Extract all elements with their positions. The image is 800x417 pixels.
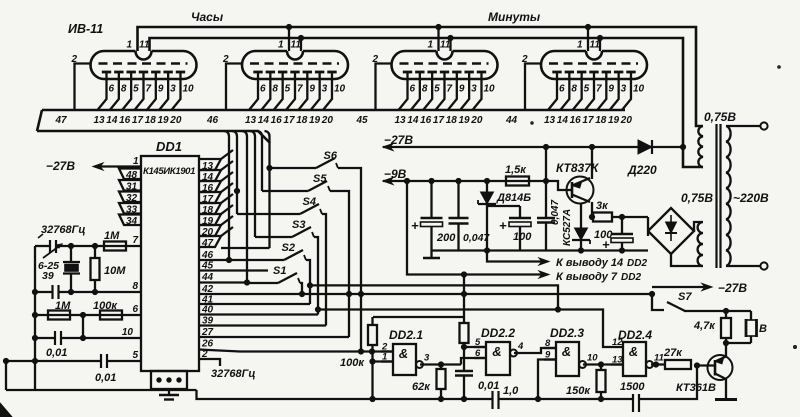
tube2 grid (dashed) — [250, 62, 339, 65]
svg-text:&: & — [562, 344, 571, 359]
DD1 pin 47 stub — [199, 236, 221, 249]
wire tube4 pin1 riser — [587, 27, 589, 51]
svg-text:45: 45 — [356, 115, 369, 126]
svg-text:10: 10 — [587, 353, 598, 364]
DD1 pin 34 stub — [119, 215, 141, 228]
wire feed to S2 — [229, 259, 284, 261]
svg-text:13: 13 — [395, 115, 407, 126]
svg-text:Минуты: Минуты — [488, 10, 541, 24]
wire rail 317 — [373, 316, 464, 318]
ground at DD1 — [168, 389, 170, 395]
svg-text:44: 44 — [505, 115, 518, 126]
svg-text:10: 10 — [182, 84, 194, 95]
capacitor 100 electrolytic (output) — [602, 217, 633, 252]
tube1 anode segments and leads — [98, 72, 186, 110]
tube4 anode segments and leads — [548, 72, 636, 110]
wire К выводу 14 — [487, 251, 544, 262]
wire osc pin5 row — [6, 360, 100, 362]
wire К выводу 7 — [407, 181, 544, 275]
svg-text:13: 13 — [94, 115, 106, 126]
svg-text:1: 1 — [577, 40, 583, 51]
svg-text:3: 3 — [322, 84, 328, 95]
wire 3к to bridge — [647, 217, 649, 236]
svg-text:DD2.4: DD2.4 — [618, 328, 652, 342]
wire DD2.2 pin5 feed — [464, 346, 486, 348]
svg-text:11: 11 — [291, 40, 302, 51]
svg-text:2: 2 — [71, 54, 78, 65]
wire emitter node — [726, 342, 751, 344]
svg-text:40: 40 — [201, 305, 214, 316]
zener КС527А — [572, 203, 590, 251]
svg-text:3: 3 — [170, 84, 176, 95]
svg-text:1,5к: 1,5к — [505, 164, 527, 176]
svg-text:6: 6 — [260, 84, 266, 95]
tube3 grid (dashed) — [400, 62, 489, 65]
wire 27к from DD2.4 — [651, 363, 665, 365]
svg-text:10: 10 — [122, 327, 134, 338]
svg-text:19: 19 — [158, 115, 170, 126]
svg-text:100к: 100к — [340, 357, 365, 369]
svg-text:2: 2 — [222, 54, 229, 65]
svg-text:44: 44 — [201, 272, 214, 283]
osc outer left rail — [5, 361, 7, 390]
svg-text:17: 17 — [132, 115, 144, 126]
IC DD1 К145ИК1901 body — [141, 156, 199, 371]
svg-text:+: + — [499, 218, 507, 233]
capacitor 0,047 (base) — [537, 181, 555, 251]
DD1 pin 13 stub — [199, 159, 221, 172]
svg-text:20: 20 — [470, 115, 483, 126]
tube3 anode segments and leads — [399, 72, 487, 110]
svg-text:42: 42 — [201, 284, 214, 295]
row labels 46 45 44 42 41 40 39 27 26 2 — [201, 250, 214, 360]
wire osc pin6 row — [35, 314, 141, 316]
svg-text:19: 19 — [608, 115, 620, 126]
wire КТ837К emitter down — [591, 202, 593, 217]
svg-text:17: 17 — [283, 115, 295, 126]
bus wire numbers under tube1 — [94, 115, 182, 126]
capacitor 0,047 — [449, 181, 469, 251]
transformer core — [715, 124, 717, 268]
VFD tube ИВ-11 #3 envelope — [392, 51, 498, 79]
wire feed to S1 — [247, 282, 278, 284]
wire DD1 pin 27 row — [199, 336, 349, 338]
svg-text:18: 18 — [296, 115, 308, 126]
resistor 4,7к — [725, 311, 727, 318]
svg-text:DD2: DD2 — [627, 258, 647, 269]
wire S3 out — [314, 237, 318, 315]
svg-text:39: 39 — [42, 270, 54, 282]
svg-text:&: & — [492, 344, 501, 359]
svg-text:14: 14 — [407, 115, 419, 126]
resistor 10М — [91, 246, 100, 292]
VFD tube ИВ-11 #4 envelope — [541, 51, 647, 79]
svg-text:10М: 10М — [104, 265, 126, 277]
svg-text:10: 10 — [633, 84, 645, 95]
wire S7 to output stage — [684, 310, 751, 312]
tube1 grid pin 2 wire — [75, 64, 91, 111]
resistor 27к — [665, 360, 691, 369]
svg-text:3: 3 — [424, 353, 430, 364]
svg-text:4: 4 — [517, 341, 524, 352]
tube4 anode pin numbers 6 8 5 7 9 3 10 — [559, 84, 645, 95]
DD2.3 input stubs — [544, 338, 556, 361]
svg-text:100: 100 — [513, 231, 532, 243]
svg-text:11: 11 — [590, 40, 601, 51]
wire tube2 pin1 riser — [288, 27, 290, 51]
svg-text:S1: S1 — [273, 265, 286, 277]
resistor 100к (DD2.1) — [371, 317, 373, 325]
svg-text:12: 12 — [612, 337, 623, 348]
wire DD1 pin 46 row — [199, 259, 229, 261]
resistor 100к (pin6) — [100, 311, 122, 320]
svg-text:47: 47 — [55, 115, 68, 126]
resistor 62к — [440, 365, 442, 370]
svg-text:19: 19 — [309, 115, 321, 126]
svg-text:5: 5 — [285, 84, 291, 95]
svg-text:32768Гц: 32768Гц — [211, 368, 255, 380]
bottom wire DD2 mid — [499, 398, 634, 400]
svg-text:S2: S2 — [282, 242, 295, 254]
VFD tube ИВ-11 #1 envelope — [91, 51, 197, 79]
svg-text:13: 13 — [544, 115, 556, 126]
resistor 150к — [600, 365, 602, 371]
svg-text:46: 46 — [206, 115, 219, 126]
wire feed to S3 — [255, 236, 292, 238]
svg-text:1: 1 — [278, 40, 284, 51]
svg-text:11: 11 — [654, 353, 664, 364]
svg-text:34: 34 — [126, 216, 138, 227]
svg-text:9: 9 — [459, 84, 465, 95]
trimmer capacitor 6-25 — [43, 240, 62, 258]
wire feed to S4 — [237, 213, 300, 215]
switch S7 — [667, 302, 685, 311]
svg-text:45: 45 — [201, 261, 214, 272]
resistor 3к — [592, 216, 594, 218]
svg-text:8: 8 — [121, 84, 127, 95]
DD2.2 input stubs — [474, 337, 486, 359]
DD1 bottom connector box — [151, 371, 187, 389]
svg-text:5: 5 — [132, 350, 138, 361]
switch S1 — [278, 273, 300, 283]
capacitor 1,0 — [493, 391, 499, 409]
svg-text:20: 20 — [620, 115, 633, 126]
svg-text:10: 10 — [483, 84, 495, 95]
DD1 pin 14 stub — [199, 170, 221, 183]
svg-text:КТ837К: КТ837К — [556, 161, 600, 175]
wire feed to S6 — [270, 167, 317, 169]
svg-text:20: 20 — [169, 115, 182, 126]
transistor КТ837К — [567, 177, 594, 204]
scan artifact corner — [0, 403, 12, 417]
ground filter — [430, 251, 432, 258]
svg-text:16: 16 — [420, 115, 432, 126]
svg-text:0,01: 0,01 — [95, 372, 116, 384]
tube4 grid (dashed) — [549, 62, 638, 65]
harness bus band left slant — [37, 110, 42, 131]
DD2.1 output — [416, 353, 430, 369]
wire tube4 pin11 riser — [599, 38, 601, 51]
wire -9В to DD2 supply — [463, 275, 465, 323]
terminal bottom — [760, 262, 767, 269]
svg-text:6: 6 — [559, 84, 565, 95]
svg-text:6: 6 — [132, 304, 138, 315]
svg-text:7: 7 — [596, 84, 602, 95]
wire rail to DD2.4 pin12 — [318, 310, 611, 348]
DD1 pin 32 stub — [119, 192, 141, 205]
svg-text:20: 20 — [321, 115, 334, 126]
capacitor 0,01 (DD2.2) — [455, 347, 473, 399]
wire feed to S5 — [262, 190, 308, 192]
svg-text:14: 14 — [258, 115, 270, 126]
svg-text:47: 47 — [201, 238, 214, 249]
DD1 pin 16 stub — [199, 181, 221, 194]
wire rail 285 — [310, 285, 558, 309]
wire tube2 pin11 riser — [300, 38, 302, 51]
svg-text:Часы: Часы — [191, 10, 224, 24]
resistor 1,5к — [506, 177, 529, 186]
svg-text:100к: 100к — [93, 300, 118, 312]
svg-text:7: 7 — [297, 84, 303, 95]
svg-text:S5: S5 — [313, 173, 327, 185]
wire S2 out — [306, 260, 310, 304]
svg-text:200: 200 — [436, 232, 456, 244]
VFD tube ИВ-11 #2 envelope — [242, 51, 348, 79]
wire -27В rail — [383, 146, 683, 148]
svg-text:2: 2 — [201, 349, 208, 360]
svg-text:8: 8 — [132, 281, 138, 292]
bus wire numbers under tube2 — [245, 115, 333, 126]
capacitor pin8 row — [53, 285, 59, 299]
wire osc top row to DD1 pin7 — [35, 245, 49, 247]
tube1 grid (dashed) — [99, 62, 188, 65]
svg-text:150к: 150к — [566, 385, 591, 397]
switch S6 — [316, 158, 338, 168]
svg-text:S3: S3 — [292, 219, 305, 231]
terminal top — [760, 122, 767, 129]
svg-text:1,0: 1,0 — [503, 385, 519, 397]
svg-text:1500: 1500 — [620, 381, 645, 393]
svg-text:16: 16 — [570, 115, 582, 126]
svg-text:16: 16 — [119, 115, 131, 126]
svg-text:&: & — [629, 344, 638, 359]
svg-text:17: 17 — [433, 115, 445, 126]
wire DD1 pin1 to -27В — [95, 165, 141, 167]
svg-text:7: 7 — [132, 235, 138, 246]
DD2.4 input stubs — [611, 337, 623, 366]
wire DD1 pin 2 row — [199, 359, 220, 366]
crystal ZQ 32768Гц — [63, 246, 80, 292]
capacitor 1500 — [633, 394, 639, 412]
wire DD2.3 pin9 — [538, 360, 556, 400]
wire DD1 pin 41 row — [199, 303, 310, 305]
DD1 pin 33 stub — [119, 203, 141, 216]
svg-text:11: 11 — [440, 40, 451, 51]
DD2.2 output — [510, 341, 524, 357]
ground КТ361В — [715, 398, 737, 401]
svg-text:18: 18 — [145, 115, 157, 126]
tube2 grid pin 2 wire — [226, 64, 242, 111]
DD1 pin 31 stub — [119, 180, 141, 193]
capacitor 0,01 (pin10) — [55, 331, 61, 345]
svg-text:КС527А: КС527А — [562, 209, 573, 246]
bottom wire DD2 left — [197, 390, 493, 399]
wire filter bottom — [432, 249, 649, 251]
svg-text:17: 17 — [582, 115, 594, 126]
wire КТ837К collector to -27В — [591, 147, 593, 179]
tube4 grid pin 2 wire — [525, 64, 541, 111]
wire to -27В via S7 — [652, 294, 664, 310]
svg-text:27к: 27к — [663, 347, 683, 359]
svg-text:−27В: −27В — [46, 159, 75, 173]
svg-text:0,01: 0,01 — [478, 380, 499, 392]
bus wire numbers under tube3 — [395, 115, 483, 126]
wire pin6-pin10 link — [82, 315, 84, 338]
svg-text:14: 14 — [557, 115, 569, 126]
DD1 pin 17 stub — [199, 192, 221, 205]
wire DD2.2 out to DD2.3 — [514, 348, 556, 353]
DD1 pin 18 stub — [199, 203, 221, 216]
svg-text:1: 1 — [428, 40, 434, 51]
wire osc pin8 row — [35, 291, 52, 293]
svg-text:5: 5 — [584, 84, 590, 95]
wire tube3 pin11 riser — [449, 38, 451, 51]
capacitor 100 electrolytic (Д814Б) — [487, 206, 531, 251]
wire DD1 pin 45 row — [199, 269, 268, 271]
transformer winding 0,75В anode — [671, 222, 703, 266]
svg-text:3: 3 — [621, 84, 627, 95]
transistor КТ361В — [694, 355, 733, 380]
svg-text:0,01: 0,01 — [46, 347, 67, 359]
svg-text:1М: 1М — [55, 300, 71, 312]
wire S1 out — [300, 283, 302, 294]
svg-text:&: & — [399, 346, 408, 361]
svg-text:18: 18 — [595, 115, 607, 126]
svg-text:1М: 1М — [104, 230, 120, 242]
svg-text:18: 18 — [446, 115, 458, 126]
svg-text:13: 13 — [245, 115, 257, 126]
tube2 anode segments and leads — [249, 72, 337, 110]
svg-text:DD2: DD2 — [621, 272, 641, 283]
wire S6 out — [338, 168, 361, 351]
switch S2 — [284, 250, 306, 260]
svg-text:8: 8 — [571, 84, 577, 95]
DD2.4 output — [646, 353, 664, 369]
svg-text:0,047: 0,047 — [550, 200, 561, 225]
transformer winding 0,75В filament — [698, 126, 703, 167]
svg-text:8: 8 — [272, 84, 278, 95]
wire filament line 1 (pin 1 bus) to transformer — [138, 27, 704, 126]
svg-text:14: 14 — [106, 115, 118, 126]
logic gate DD2.4 — [623, 342, 646, 376]
svg-text:16: 16 — [271, 115, 283, 126]
svg-text:62к: 62к — [412, 381, 431, 393]
wire S5 out — [330, 191, 349, 337]
svg-text:19: 19 — [459, 115, 471, 126]
svg-text:Д814Б: Д814Б — [496, 192, 531, 204]
resistor (DD2.2 pin5) — [460, 323, 469, 343]
svg-text:9: 9 — [158, 84, 164, 95]
logic gate DD2.2 — [486, 342, 510, 375]
svg-text:11: 11 — [139, 40, 150, 51]
svg-text:8: 8 — [422, 84, 428, 95]
svg-text:S6: S6 — [324, 150, 338, 162]
svg-text:39: 39 — [202, 316, 214, 327]
svg-text:DD2.2: DD2.2 — [481, 326, 515, 340]
switch S3 — [292, 227, 314, 237]
zener Д814Б — [478, 181, 496, 251]
bus wire numbers under tube4 — [544, 115, 632, 126]
svg-text:+: + — [411, 218, 419, 233]
svg-text:3: 3 — [471, 84, 477, 95]
tube2 anode pin numbers 6 8 5 7 9 3 10 — [260, 84, 346, 95]
svg-text:46: 46 — [201, 250, 214, 261]
svg-text:10: 10 — [334, 84, 346, 95]
svg-text:6: 6 — [109, 84, 115, 95]
svg-text:В: В — [759, 323, 767, 335]
svg-text:S7: S7 — [678, 291, 692, 303]
svg-text:К выводу 14: К выводу 14 — [556, 257, 623, 269]
svg-text:2: 2 — [521, 54, 528, 65]
wire DD2.1 pin1 strap — [373, 360, 394, 362]
svg-text:6: 6 — [410, 84, 416, 95]
wire to DD2.2 pin6 — [461, 358, 486, 365]
DD1 pin 20 stub — [199, 225, 221, 238]
bottom wire DD2 right — [639, 366, 697, 400]
svg-text:DD2.3: DD2.3 — [550, 326, 584, 340]
osc left rail — [34, 246, 36, 390]
resistor 1М (pin6) — [48, 311, 70, 320]
svg-text:К выводу 7: К выводу 7 — [556, 271, 618, 283]
svg-text:ИВ-11: ИВ-11 — [68, 22, 103, 36]
svg-text:−27В: −27В — [718, 281, 747, 295]
wire DD1 pin 40 row — [199, 313, 318, 315]
svg-text:5: 5 — [434, 84, 440, 95]
wire DD1 pin 39 row — [199, 324, 326, 326]
wire DD2.3 out to DD2.4 pin13 — [583, 363, 623, 365]
svg-text:+: + — [602, 237, 610, 252]
DD1 pin 19 stub — [199, 214, 221, 227]
svg-text:DD2.1: DD2.1 — [389, 328, 423, 342]
svg-text:~220В: ~220В — [733, 191, 769, 205]
svg-text:27: 27 — [201, 327, 214, 338]
capacitor 0,01 (pin5) — [101, 354, 107, 368]
switch S4 — [300, 204, 322, 214]
DD1 bottom box dots — [157, 378, 161, 382]
svg-text:Д220: Д220 — [627, 163, 657, 177]
bridge rectifier — [648, 208, 694, 254]
wire DD1 pin 26 row to DD2.1 — [199, 350, 393, 352]
DD2.3 output — [579, 353, 598, 369]
svg-text:DD1: DD1 — [156, 139, 182, 154]
resistor 1М (osc) — [104, 242, 126, 251]
svg-text:9: 9 — [608, 84, 614, 95]
svg-text:3к: 3к — [596, 200, 609, 212]
wire base feed КТ837К — [546, 181, 566, 190]
svg-text:7: 7 — [446, 84, 452, 95]
wire DD1 pin 42 row to S7 — [199, 293, 652, 295]
transformer primary ~220В — [726, 126, 760, 266]
capacitor 200 electrolytic — [411, 181, 443, 251]
logic gate DD2.1 — [393, 344, 416, 375]
wire S4 out — [322, 214, 326, 326]
svg-text:5: 5 — [133, 84, 139, 95]
bottom rail — [6, 389, 197, 391]
svg-text:9: 9 — [309, 84, 315, 95]
diode Д220 — [638, 140, 652, 154]
wire DD2.1 out — [420, 363, 461, 365]
DD2.1 input stubs — [381, 342, 393, 363]
